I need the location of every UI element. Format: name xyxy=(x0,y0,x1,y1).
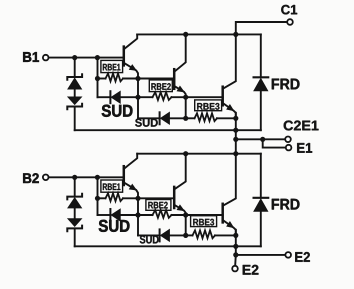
wire left vertical B2 node xyxy=(97,177,99,215)
junction RBE1b right / Q1b emitter xyxy=(135,196,140,201)
wire left vertical B1 node xyxy=(97,58,99,98)
junction RBE1 left xyxy=(95,76,100,81)
resistor RBE3 (lower) xyxy=(186,230,236,238)
terminal B1 label xyxy=(23,52,39,62)
junction C2E1 wire xyxy=(233,137,238,142)
wire vertical Q1 emitter chain xyxy=(137,79,139,119)
junction SUD1 right / RBE2 left xyxy=(135,95,140,100)
node B junction on B1 line xyxy=(95,55,100,60)
free-wheel diode FRD2 xyxy=(236,154,268,247)
transistor Q3 (lower) xyxy=(223,154,236,236)
transistor Q1 (lower) xyxy=(124,154,138,199)
wire Q2 base xyxy=(138,78,174,80)
junction Q2b collector on lower rail xyxy=(183,151,188,156)
resistor RBE2 xyxy=(138,92,186,100)
wire Q2b base xyxy=(138,197,174,199)
junction RBE1 right / Q1 emitter xyxy=(135,76,140,81)
label SUD (small, upper) xyxy=(135,119,158,127)
junction RBE3b right / Q3b emitter xyxy=(233,233,238,238)
wire B1 to Q1 base xyxy=(49,57,122,59)
terminal E1 xyxy=(286,145,292,151)
wire central vertical E2 node xyxy=(235,230,237,255)
junction E1 node / FRD1 bottom xyxy=(233,128,238,133)
transistor Q2 (lower) xyxy=(174,154,186,215)
terminal C2E1 label xyxy=(284,121,319,131)
terminal B2 xyxy=(43,175,49,181)
junction E1 jog xyxy=(260,137,265,142)
wire vertical Q2 emitter chain xyxy=(185,97,187,118)
collector rail lower (C2) xyxy=(137,153,261,155)
label FRD lower xyxy=(272,199,300,210)
junction RBE1b left xyxy=(95,196,100,201)
wire vertical Q1b emitter chain xyxy=(137,198,139,235)
emitter rail bottom (section 2) xyxy=(75,245,236,247)
junction RBE2b right / Q2b emitter xyxy=(183,212,188,217)
resistor RBE2 (lower) xyxy=(138,210,186,218)
resistor label box RBE3 xyxy=(195,100,222,111)
junction C1 node on rail xyxy=(233,32,238,37)
junction SUD1b right / RBE2b left xyxy=(135,212,140,217)
junction central on lower rail xyxy=(233,151,238,156)
junction RBE2 right / Q2 emitter xyxy=(183,95,188,100)
terminal C1 label xyxy=(281,5,297,15)
wire E1 jog xyxy=(263,139,286,147)
speed-up diode SUD2 (lower) xyxy=(138,229,186,241)
transistor Q1 xyxy=(124,34,138,78)
wire central vertical E1 node xyxy=(235,113,237,154)
free-wheel diode FRD1 xyxy=(236,34,268,130)
zener clamp pair D1 (B1-E1) xyxy=(67,58,82,131)
node A2 junction on B2 line xyxy=(72,175,77,180)
resistor label box RBE1 xyxy=(101,60,123,72)
wire E2 right xyxy=(236,254,285,256)
terminal E2 (bottom) xyxy=(232,266,238,272)
terminal B1 xyxy=(43,55,49,61)
label SUD (small, lower) xyxy=(140,235,159,243)
terminal C2E1 xyxy=(285,137,291,143)
junction SUD2b right / RBE3b left xyxy=(183,233,188,238)
zener clamp pair D2 (B2-E2) xyxy=(67,177,82,246)
wire vertical Q2b emitter chain xyxy=(185,215,187,235)
speed-up diode SUD2 xyxy=(138,112,186,124)
terminal C1 xyxy=(287,19,293,25)
junction RBE3 right / Q3 emitter xyxy=(233,116,238,121)
resistor RBE3 xyxy=(186,113,236,121)
junction E2 node / FRD2 bottom xyxy=(233,244,238,249)
collector rail upper xyxy=(137,33,261,35)
wire Q3b base xyxy=(186,214,223,216)
label SUD (large, upper) xyxy=(102,105,133,117)
wire C1 stub xyxy=(236,22,287,34)
terminal E1 label xyxy=(297,143,312,153)
junction Q2 collector on rail xyxy=(183,32,188,37)
transistor Q3 xyxy=(223,34,236,118)
terminal E2 (right) xyxy=(285,252,291,258)
label SUD (large, lower) xyxy=(99,220,130,232)
node B2 junction on B2 line xyxy=(95,175,100,180)
junction SUD2 right / RBE3 left xyxy=(183,116,188,121)
transistor Q2 xyxy=(174,34,186,97)
wire C2E1 xyxy=(236,138,285,140)
terminal B2 label xyxy=(23,173,39,183)
emitter rail bottom (section 1) xyxy=(75,129,236,131)
terminal E2 bottom label xyxy=(243,265,259,275)
terminal E2 right label xyxy=(295,252,310,262)
speed-up diode SUD1 xyxy=(98,91,139,103)
resistor RBE1 (lower) xyxy=(98,193,139,201)
node A junction on B1 line xyxy=(72,55,77,60)
wire E2 stub down xyxy=(234,255,237,265)
resistor label box RBE2 (lower) xyxy=(146,200,171,211)
speed-up diode SUD1 (lower) xyxy=(98,209,139,221)
resistor RBE1 xyxy=(98,74,139,82)
resistor label box RBE1 (lower) xyxy=(101,180,123,192)
junction E2 wire xyxy=(233,252,238,257)
wire Q3 base xyxy=(186,96,223,98)
resistor label box RBE2 xyxy=(149,80,172,92)
resistor label box RBE3 (lower) xyxy=(191,216,217,227)
wire B2 to Q1b base xyxy=(49,176,122,178)
label FRD upper xyxy=(272,79,300,90)
